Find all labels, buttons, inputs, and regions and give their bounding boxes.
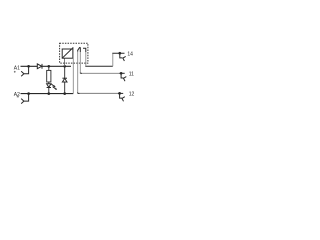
wire resistor drop [48,66,50,70]
diode V1 (series) [37,64,42,69]
wire freewheel drop [64,66,66,78]
wire 11 horizontal [80,72,82,74]
LED V2 [47,84,58,90]
node A1 socket junction [27,65,30,68]
node 11 [120,72,123,75]
contact NO lead to 14 [83,48,86,52]
svg-text:12: 12 [129,92,135,98]
diode V3 (freewheel) [62,78,67,82]
wire coil pin [64,58,66,66]
node resistor branch [47,65,50,68]
socket 12 [120,93,123,98]
wire 12 horizontal [78,92,80,94]
node freewheel-A2 junction [63,92,66,95]
wire 11 stub [121,72,125,74]
polarity mark under A1 [14,71,16,73]
wire 12 stub [120,92,124,94]
node A2 socket junction [27,92,30,95]
wire resistor to LED [48,82,50,84]
socket 14 [120,53,123,58]
socket chevron A2 [21,99,24,104]
wire freewheel to A2 [64,82,66,94]
node 12 [118,92,121,95]
svg-text:14: 14 [127,51,133,57]
wire A1 socket drop [24,66,29,74]
socket chevron A1 [21,71,24,76]
coil K1 [62,49,73,58]
svg-text:11: 11 [129,72,134,78]
terminal A2 label [14,92,20,98]
node 14 [118,52,121,55]
wire A2 horizontal [21,93,74,95]
wire A2 socket drop [24,94,29,102]
node LED-A2 junction [47,92,50,95]
wire A1 horizontal [21,65,72,67]
terminal A1 label [14,66,20,73]
wire coil return riser [72,47,74,93]
contact NC lead to 12 [78,47,80,51]
node coil/freewheel junction on A1 wire [63,65,66,68]
contact COM lead to 11 [79,47,82,52]
coil diagonal actuator [62,47,73,58]
relay K1 dashed box [60,43,88,63]
svg-text:A1: A1 [14,66,20,72]
resistor R1 [47,70,51,82]
wire LED to A2 [48,88,50,94]
socket 11 [121,73,124,78]
